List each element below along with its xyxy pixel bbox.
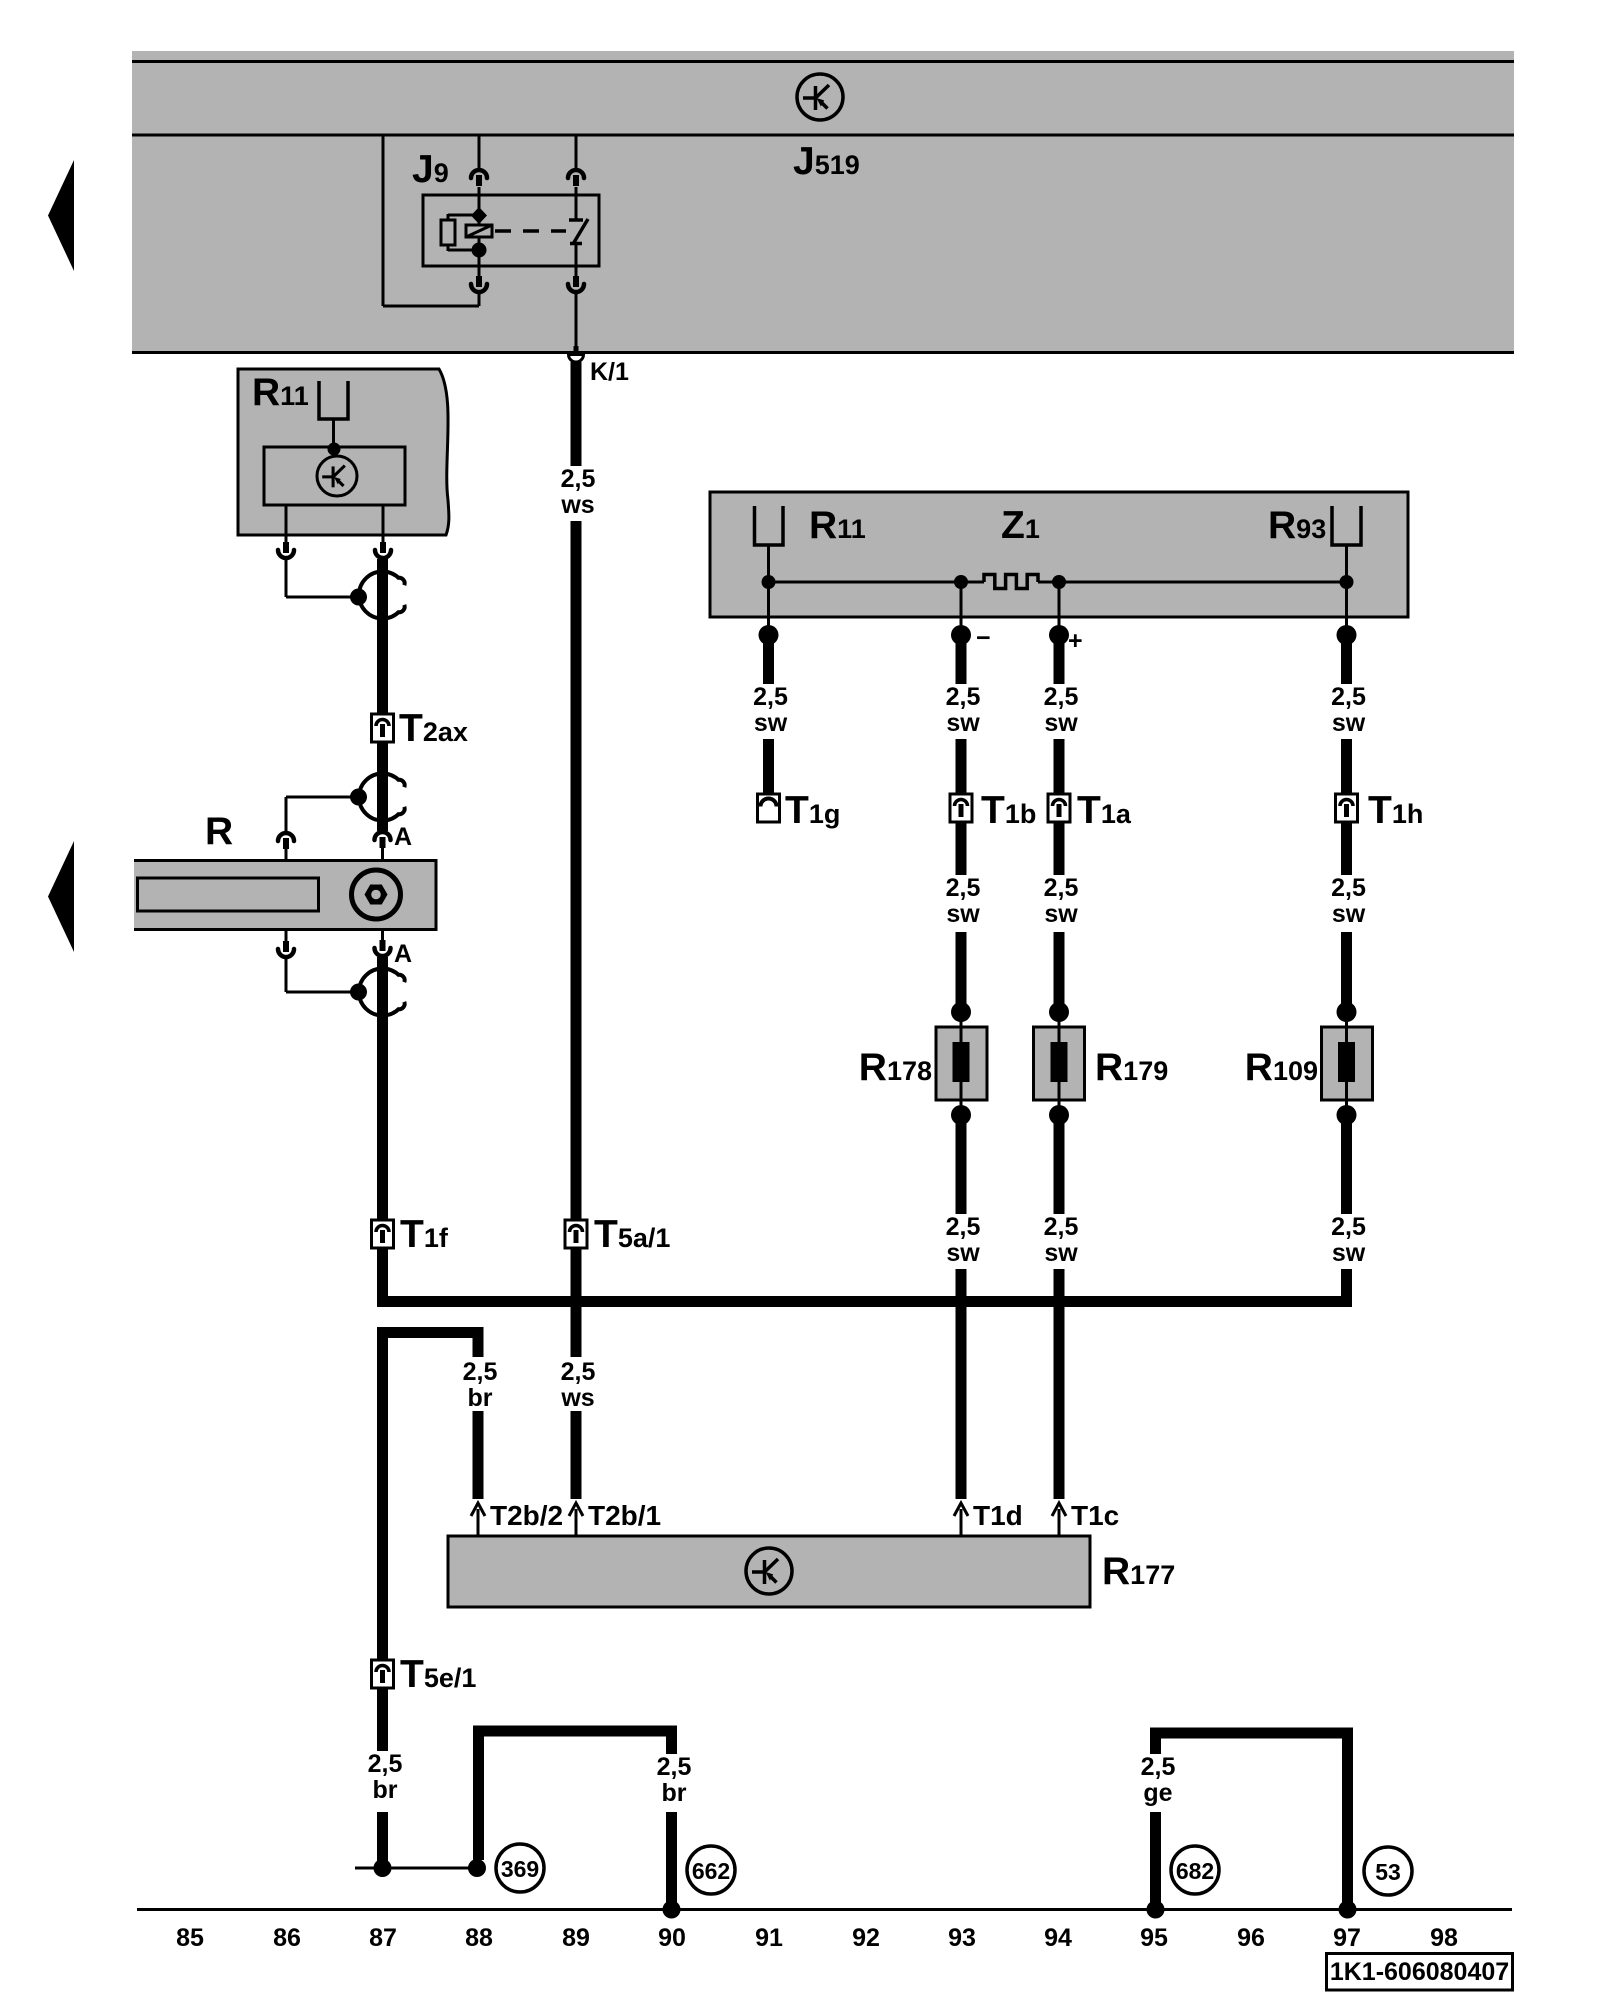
in-line connector T1h — [1336, 794, 1358, 822]
svg-text:br: br — [662, 1779, 687, 1807]
svg-text:T1h: T1h — [1368, 789, 1423, 832]
wire 2,5 sw below resistor — [956, 1122, 967, 1214]
earth point label 369 — [496, 1844, 544, 1892]
aerial lead (thick) from R11 — [377, 559, 388, 714]
junction dot (R11 feed) — [762, 575, 776, 589]
junction dot (Z1 plus) — [1052, 575, 1066, 589]
wire 2,5 ws to R177 pin T2b/1 — [571, 1411, 582, 1499]
control unit J519 (onboard supply control unit) box — [132, 51, 1514, 354]
svg-text:96: 96 — [1237, 1924, 1265, 1952]
junction dot at reference line (682) — [1147, 1901, 1165, 1919]
aerial lead from R down to T1f — [377, 957, 388, 1220]
terminal dot below box (T1g wire) — [759, 625, 779, 645]
svg-text:369: 369 — [501, 1856, 539, 1882]
wire 2,5 ws below bus — [571, 1307, 582, 1357]
aerial lead from T1f to earth bus — [377, 1248, 388, 1307]
svg-text:T5e/1: T5e/1 — [400, 1653, 476, 1696]
svg-text:K/1: K/1 — [590, 358, 629, 386]
svg-text:R179: R179 — [1095, 1046, 1168, 1089]
wire: shield branch to aerial R top-left pin — [286, 797, 356, 832]
amplifier R177 box — [448, 1536, 1090, 1607]
svg-text:T2b/2: T2b/2 — [490, 1500, 563, 1531]
svg-text:2,5: 2,5 — [561, 465, 596, 493]
svg-text:53: 53 — [1375, 1859, 1401, 1885]
svg-text:94: 94 — [1044, 1924, 1072, 1952]
svg-text:sw: sw — [1332, 1239, 1366, 1267]
wire 2,5 sw to T1a (lower) — [1054, 739, 1065, 794]
junction dot (R93 feed) — [1340, 575, 1354, 589]
svg-text:95: 95 — [1140, 1924, 1168, 1952]
svg-text:2,5: 2,5 — [368, 1750, 403, 1778]
svg-text:sw: sw — [754, 709, 788, 737]
internal wire with junctions — [769, 581, 1347, 584]
junction dot on shield (3) — [350, 984, 367, 1001]
wire: R11 left output — [285, 505, 288, 535]
in-line connector T1f — [372, 1220, 394, 1248]
wire 2,5 br to T2b/2 — [473, 1333, 484, 1357]
wire: relay coil vertical — [478, 195, 481, 266]
diagram number box 1K1-606080407 — [1327, 1954, 1513, 1991]
current track numbers 85-98 — [176, 1924, 1458, 1952]
svg-text:2,5: 2,5 — [946, 874, 981, 902]
junction dot on amplifier box — [328, 443, 341, 456]
svg-text:91: 91 — [755, 1924, 783, 1952]
earth connection label 682 — [1171, 1846, 1219, 1894]
pin T2b/2 of R177 — [471, 1503, 485, 1536]
wire: relay pin bottom-right (to K/1) with connector — [568, 266, 584, 353]
socket K/1 on J519 box edge — [569, 355, 584, 363]
page continuation arrow (left, middle) — [48, 841, 74, 952]
svg-text:2,5: 2,5 — [1331, 683, 1366, 711]
aerial rod element — [138, 878, 319, 911]
connector below R11 right with harpoon — [375, 535, 391, 558]
connector cup in R11 — [319, 381, 348, 419]
wire from R179 to R177 pin T1c — [1054, 1269, 1065, 1499]
svg-text:89: 89 — [562, 1924, 590, 1952]
relay switch contact — [569, 195, 588, 266]
svg-text:T1c: T1c — [1071, 1500, 1119, 1531]
junction dot earth point — [468, 1859, 486, 1877]
svg-text:−: − — [976, 624, 991, 652]
connector A on aerial R top pin — [375, 832, 391, 859]
wire 2,5 sw below resistor — [1341, 1122, 1352, 1214]
suppression resistor R179 — [1034, 1002, 1085, 1125]
svg-text:A: A — [394, 823, 412, 851]
shield symbol on aerial lead (2) — [359, 774, 400, 821]
wire 2,5 sw below resistor — [1054, 1122, 1065, 1214]
in-line connector T1b — [950, 794, 972, 822]
junction dot on shield (2) — [350, 789, 367, 806]
connector below aerial R left pin — [278, 931, 294, 957]
wire 2,5 br to reference line track 90 — [666, 1812, 677, 1910]
svg-text:T5a/1: T5a/1 — [594, 1213, 670, 1256]
junction dot at reference line (53) — [1339, 1901, 1357, 1919]
yellow link U (682 to 53) — [1150, 1728, 1353, 1739]
svg-text:sw: sw — [1332, 709, 1366, 737]
junction dot on shield (1) — [350, 589, 367, 606]
svg-text:2,5: 2,5 — [946, 683, 981, 711]
wire: relay pin bottom-left with connector — [471, 266, 487, 306]
wire: branch from aerial R bottom-left to shield (3) — [286, 958, 356, 992]
wire: relay pin top-right with connector — [568, 135, 584, 195]
svg-text:662: 662 — [692, 1858, 730, 1884]
wire from U down to earth point — [473, 1731, 484, 1860]
wire 2,5 sw to T1h (lower) — [1341, 739, 1352, 794]
wire 2,5 ws continues to crossing of earth bus — [571, 521, 582, 1296]
connector cup left (R11) — [755, 506, 784, 545]
svg-text:86: 86 — [273, 1924, 301, 1952]
wire: R11 left branch to shield of aerial lead — [286, 559, 356, 597]
page continuation arrow (left, top) — [48, 160, 74, 271]
suppression resistor R109 — [1322, 1002, 1373, 1125]
svg-text:R: R — [205, 810, 233, 853]
svg-text:2,5: 2,5 — [1044, 874, 1079, 902]
svg-text:sw: sw — [1332, 900, 1366, 928]
svg-text:92: 92 — [852, 1924, 880, 1952]
junction dot (Z1 minus) — [954, 575, 968, 589]
earth branch (br) upper U — [377, 1327, 484, 1338]
wire 2,5 sw to suppression resistor — [1341, 932, 1352, 1005]
svg-text:87: 87 — [369, 1924, 397, 1952]
svg-text:br: br — [373, 1776, 398, 1804]
junction dot earth wire — [374, 1859, 392, 1877]
svg-text:2,5: 2,5 — [1044, 683, 1079, 711]
aerial amplifier box (R11 / Z1 / R93) — [710, 492, 1408, 617]
pin T2b/1 of R177 — [569, 1503, 583, 1536]
wire 2,5 sw to suppression resistor — [956, 932, 967, 1005]
comfort-system (K) symbol in R11 — [317, 456, 357, 496]
svg-text:T2ax: T2ax — [399, 707, 468, 750]
svg-text:2,5: 2,5 — [1331, 1213, 1366, 1241]
svg-text:2,5: 2,5 — [657, 1753, 692, 1781]
wire: coil branch top — [448, 214, 479, 220]
wire 2,5 sw below connector — [956, 822, 967, 875]
wire to terminal 53 — [1342, 1733, 1353, 1910]
connector below R11 left with harpoon — [278, 535, 294, 558]
svg-text:R178: R178 — [859, 1046, 932, 1089]
connector cup right (R93) — [1332, 506, 1361, 545]
pin T1c of R177 — [1052, 1503, 1066, 1536]
svg-text:sw: sw — [1044, 900, 1078, 928]
svg-text:+: + — [1068, 627, 1083, 655]
wire 2,5 sw to T1h (upper) — [1341, 640, 1352, 684]
wire from R109 down to earth bus — [1341, 1269, 1352, 1307]
svg-text:2,5: 2,5 — [561, 1358, 596, 1386]
svg-text:93: 93 — [948, 1924, 976, 1952]
relay parallel resistor — [441, 220, 455, 245]
aerial lead between T2ax and aerial R — [377, 742, 388, 831]
aerial base symbol — [352, 870, 401, 919]
svg-text:T1d: T1d — [973, 1500, 1023, 1531]
relay J9 internal bracket outline — [383, 135, 479, 306]
svg-text:98: 98 — [1430, 1924, 1458, 1952]
earth connection label 662 — [687, 1846, 735, 1894]
end connector T1g — [758, 794, 780, 822]
svg-text:1K1-606080407: 1K1-606080407 — [1330, 1958, 1509, 1986]
wire br from U down to T5e/1 — [377, 1333, 388, 1660]
earth point line 369 — [355, 1867, 477, 1870]
wire cup to amplifier box — [332, 419, 335, 445]
wire from R178 to R177 pin T1d — [956, 1269, 967, 1499]
svg-text:R109: R109 — [1245, 1046, 1318, 1089]
wire 2,5 br to earth connection 662 — [666, 1731, 677, 1754]
junction dot at relay coil bottom — [472, 243, 487, 258]
svg-text:2,5: 2,5 — [1044, 1213, 1079, 1241]
wire 2,5 br to earth point 369 — [377, 1688, 388, 1751]
pin T1d of R177 — [954, 1503, 968, 1536]
svg-text:97: 97 — [1333, 1924, 1361, 1952]
wire 2,5 br to R177 pin T2b/2 (lower) — [473, 1411, 484, 1499]
svg-text:sw: sw — [946, 709, 980, 737]
svg-text:A: A — [394, 940, 412, 968]
wire 2,5 sw below connector — [1054, 822, 1065, 875]
wire 2,5 sw to T1a (upper) — [1054, 640, 1065, 684]
svg-text:ws: ws — [560, 1384, 594, 1412]
svg-text:sw: sw — [946, 900, 980, 928]
wire 2,5 br lower section to earth point — [377, 1812, 388, 1868]
relay J9 box — [423, 195, 599, 266]
connector A below aerial R — [375, 931, 391, 956]
pin wires through box bottom — [769, 582, 1347, 627]
svg-text:sw: sw — [1044, 709, 1078, 737]
svg-text:R177: R177 — [1102, 1550, 1175, 1593]
terminal dot below box (T1a wire) — [1049, 625, 1069, 645]
in-line connector T5e/1 — [372, 1660, 394, 1688]
svg-text:2,5: 2,5 — [1331, 874, 1366, 902]
wire cup R93 down — [1345, 545, 1348, 578]
aerial amplifier inner box — [264, 447, 405, 505]
comfort-system (K) symbol in J519 — [797, 74, 843, 120]
svg-text:90: 90 — [658, 1924, 686, 1952]
svg-text:T1f: T1f — [400, 1213, 449, 1256]
wire cup R11 down — [767, 545, 770, 578]
wire 2,5 sw to T1g (lower) — [763, 739, 774, 794]
svg-text:2,5: 2,5 — [1141, 1753, 1176, 1781]
terminal dot below box (T1b wire) — [951, 625, 971, 645]
wire 2,5 sw to T1b (lower) — [956, 739, 967, 794]
svg-text:sw: sw — [1044, 1239, 1078, 1267]
svg-text:T1b: T1b — [981, 789, 1036, 832]
terminal dot below box (T1h wire) — [1337, 625, 1357, 645]
junction dot at reference line (662) — [663, 1901, 681, 1919]
junction (diamond) at relay coil top — [471, 207, 487, 224]
comfort-system (K) symbol in R177 — [746, 1548, 792, 1594]
earth link U (369 to track 90) — [473, 1726, 677, 1737]
svg-text:T2b/1: T2b/1 — [588, 1500, 661, 1531]
svg-text:ws: ws — [560, 491, 594, 519]
svg-text:682: 682 — [1176, 1858, 1214, 1884]
wire 2,5 ge to reference line track 95 — [1150, 1812, 1161, 1910]
wire 2,5 sw to suppression resistor — [1054, 932, 1065, 1005]
svg-text:T1a: T1a — [1077, 789, 1132, 832]
svg-text:2,5: 2,5 — [463, 1358, 498, 1386]
earth bus wire (sw) — [377, 1296, 1352, 1307]
shield symbol on aerial lead (3) — [359, 969, 400, 1016]
svg-text:2,5: 2,5 — [753, 683, 788, 711]
aerial R box — [134, 859, 436, 931]
heating element Z1 (meander) — [984, 575, 1038, 589]
svg-text:2,5: 2,5 — [946, 1213, 981, 1241]
in-line connector T1a — [1048, 794, 1070, 822]
connector on aerial R top-left pin — [278, 833, 294, 859]
relay coil winding — [466, 225, 492, 237]
suppression resistor R178 — [936, 1002, 987, 1125]
wire: relay pin top-left with connector — [471, 135, 487, 195]
in-line connector T5a/1 — [565, 1220, 587, 1248]
wire 2,5 ws from K/1 down (upper) — [571, 362, 582, 466]
terminal label 53 — [1364, 1847, 1412, 1895]
aerial R11 (partial box, torn edge) — [238, 369, 449, 535]
shield symbol on aerial lead (1) — [359, 572, 400, 619]
wire 2,5 sw to T1b (upper) — [956, 640, 967, 684]
current track reference line — [137, 1908, 1512, 1911]
in-line connector T2ax — [372, 714, 394, 742]
wire: coil branch bottom — [448, 245, 479, 251]
wire 2,5 ge to earth connection 682 — [1150, 1733, 1161, 1754]
wire 2,5 sw below connector — [1341, 822, 1352, 875]
svg-text:br: br — [468, 1384, 493, 1412]
svg-text:88: 88 — [465, 1924, 493, 1952]
svg-text:ge: ge — [1143, 1779, 1172, 1807]
dashed mechanical link coil-switch — [495, 229, 566, 233]
svg-text:sw: sw — [946, 1239, 980, 1267]
svg-text:T1g: T1g — [785, 789, 840, 832]
wire 2,5 sw to T1g (upper) — [763, 640, 774, 684]
svg-text:85: 85 — [176, 1924, 204, 1952]
wire: R11 right output — [382, 505, 385, 535]
